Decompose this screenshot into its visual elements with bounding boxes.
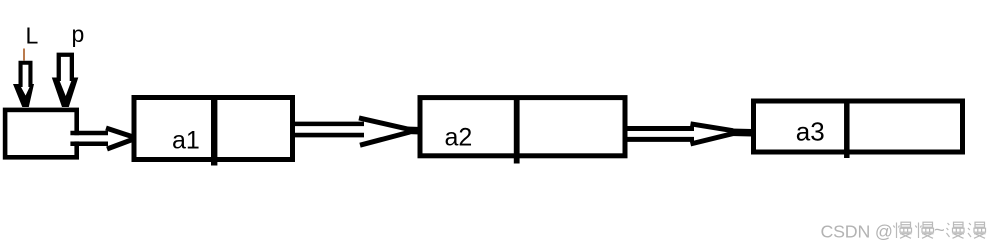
svg-text:L: L <box>26 23 39 49</box>
watermark hanzi 1 <box>893 222 911 238</box>
svg-text:~: ~ <box>934 219 945 240</box>
node a3 divider <box>844 100 850 159</box>
node a1 box <box>134 98 293 160</box>
node a3 box <box>754 101 963 152</box>
pointer arrow L (hollow down arrow) <box>13 61 34 107</box>
node a2 box <box>420 98 625 156</box>
wire arrow a1-to-a2 <box>293 118 422 145</box>
svg-text:p: p <box>72 21 85 47</box>
cursor tick under L <box>23 49 25 61</box>
head node box L <box>5 110 77 157</box>
watermark hanzi 4 <box>968 222 986 238</box>
watermark hanzi 2 <box>915 222 933 238</box>
wire arrow head-to-a1 <box>70 128 141 149</box>
node a1 divider <box>211 96 217 166</box>
wire arrow a2-to-a3 <box>625 124 757 144</box>
watermark hanzi 3 <box>947 222 965 238</box>
svg-text:a3: a3 <box>796 116 825 146</box>
node a2 divider <box>514 96 520 164</box>
pointer arrow p (hollow down arrow) <box>52 53 79 107</box>
svg-text:a2: a2 <box>445 124 473 152</box>
svg-text:a1: a1 <box>172 127 200 155</box>
svg-text:CSDN @: CSDN @ <box>821 221 893 241</box>
